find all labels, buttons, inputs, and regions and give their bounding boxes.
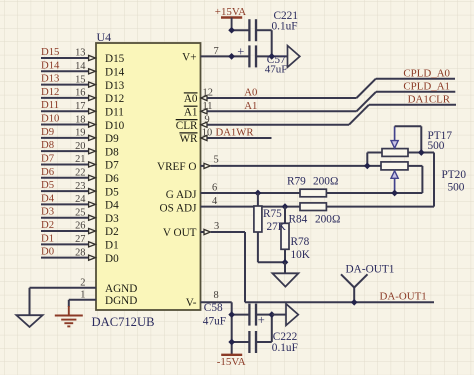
value label C58 47uF bbox=[203, 302, 226, 327]
net label D10 bbox=[41, 113, 59, 125]
svg-text:R84: R84 bbox=[289, 213, 308, 225]
svg-text:5: 5 bbox=[214, 155, 219, 166]
svg-text:16: 16 bbox=[75, 88, 85, 99]
value label DAC712UB bbox=[92, 315, 155, 329]
wire VREF O bbox=[211, 165, 381, 167]
svg-text:A0: A0 bbox=[184, 93, 198, 105]
node junction VREF branch bbox=[365, 153, 382, 169]
capacitor C58 plates bbox=[249, 304, 256, 326]
pin number 28 bbox=[75, 247, 85, 258]
pin number 16 bbox=[75, 88, 85, 99]
wire D3 bbox=[41, 217, 88, 219]
port label DA-OUT1 bbox=[346, 263, 395, 275]
pin name D11 bbox=[105, 106, 124, 118]
svg-text:D6: D6 bbox=[105, 173, 119, 185]
capacitor C57 plates bbox=[249, 45, 256, 67]
resistor R78 body bbox=[281, 207, 289, 263]
svg-text:23: 23 bbox=[75, 181, 85, 192]
value label C57 47uF bbox=[265, 54, 288, 76]
node junction V+ rail bottom bbox=[229, 54, 234, 59]
svg-text:D10: D10 bbox=[105, 120, 125, 132]
pin arrow D1 bbox=[89, 242, 96, 247]
pin name V+ bbox=[182, 52, 196, 64]
pin name D6 bbox=[105, 173, 119, 185]
wire V- pin 8 bbox=[201, 302, 232, 354]
node junction R78 top bbox=[282, 204, 287, 209]
PT17 wiper arrow bbox=[391, 126, 398, 148]
ground below R78 bbox=[272, 273, 298, 286]
pin arrow D12 bbox=[89, 95, 96, 100]
wire C57 right to arrow bbox=[257, 55, 288, 57]
svg-text:27: 27 bbox=[75, 234, 85, 245]
svg-text:14: 14 bbox=[75, 61, 86, 72]
net label D3 bbox=[41, 206, 54, 218]
pin number 1 bbox=[80, 290, 85, 301]
svg-text:D7: D7 bbox=[105, 160, 119, 172]
pin arrow V OUT bbox=[201, 229, 211, 234]
pin number 17 bbox=[75, 101, 85, 112]
svg-text:6: 6 bbox=[212, 183, 217, 194]
pin name D3 bbox=[105, 213, 119, 225]
svg-text:19: 19 bbox=[75, 128, 85, 139]
PT20 wiper arrow bbox=[391, 171, 398, 193]
svg-text:D12: D12 bbox=[105, 93, 124, 105]
pin name WR bbox=[179, 133, 198, 145]
svg-text:D4: D4 bbox=[105, 200, 119, 212]
svg-text:A0: A0 bbox=[244, 87, 257, 99]
pin name AGND bbox=[105, 283, 137, 295]
net label DA1WR bbox=[216, 127, 255, 139]
designator U4 bbox=[97, 30, 112, 44]
pin name DGND bbox=[105, 295, 137, 307]
svg-text:200Ω: 200Ω bbox=[315, 213, 340, 225]
svg-text:D1: D1 bbox=[41, 232, 54, 244]
pin arrow D11 bbox=[89, 109, 96, 114]
svg-text:D4: D4 bbox=[41, 192, 55, 204]
wire D11 bbox=[41, 110, 88, 112]
wire D15 bbox=[41, 57, 88, 59]
pin number 11 bbox=[203, 101, 213, 112]
svg-text:13: 13 bbox=[75, 48, 85, 59]
svg-text:17: 17 bbox=[75, 101, 85, 112]
potentiometer PT20 body bbox=[381, 162, 408, 170]
value label PT20 500 bbox=[442, 169, 467, 194]
svg-text:A1: A1 bbox=[184, 107, 198, 119]
svg-text:CLR: CLR bbox=[176, 120, 198, 132]
wire D13 bbox=[41, 84, 88, 86]
power +15VA bbox=[215, 6, 246, 30]
svg-text:D7: D7 bbox=[41, 152, 55, 164]
wire CLR bbox=[207, 124, 349, 126]
pin number 22 bbox=[75, 167, 85, 178]
pin name V OUT bbox=[163, 227, 197, 239]
pin arrow D5 bbox=[89, 189, 96, 194]
pin number 4 bbox=[212, 196, 218, 207]
net label A0 bbox=[244, 87, 257, 99]
value label R84 200ohm bbox=[289, 213, 341, 225]
svg-text:D0: D0 bbox=[41, 246, 54, 258]
svg-text:R78: R78 bbox=[291, 236, 310, 248]
svg-text:18: 18 bbox=[75, 114, 85, 125]
pin name D12 bbox=[105, 93, 124, 105]
ground AGND earth triangle bbox=[16, 315, 42, 327]
polarity plus C57 bbox=[237, 44, 244, 58]
svg-text:47uF: 47uF bbox=[265, 64, 288, 76]
svg-text:D13: D13 bbox=[41, 73, 59, 85]
pin arrow A0 bbox=[201, 95, 207, 100]
svg-text:DA1WR: DA1WR bbox=[216, 127, 255, 139]
svg-text:28: 28 bbox=[75, 247, 85, 258]
pin number 8 bbox=[214, 290, 219, 301]
svg-text:47uF: 47uF bbox=[203, 315, 226, 327]
pin number 10 bbox=[202, 128, 212, 139]
svg-text:D0: D0 bbox=[105, 253, 119, 265]
svg-text:C58: C58 bbox=[204, 302, 223, 314]
svg-text:D1: D1 bbox=[105, 240, 119, 252]
svg-text:0.1uF: 0.1uF bbox=[272, 342, 298, 354]
net label D14 bbox=[41, 59, 60, 71]
svg-text:+: + bbox=[258, 313, 265, 327]
svg-text:0.1uF: 0.1uF bbox=[272, 20, 298, 32]
svg-text:R75: R75 bbox=[263, 208, 282, 220]
wire V+ pin 7 bbox=[201, 55, 249, 57]
svg-text:DAC712UB: DAC712UB bbox=[92, 315, 155, 329]
svg-text:D12: D12 bbox=[41, 86, 59, 98]
pin number 6 bbox=[212, 183, 217, 194]
node junction C58 left bbox=[229, 312, 234, 317]
wire D8 bbox=[41, 150, 88, 152]
svg-text:25: 25 bbox=[75, 207, 85, 218]
value label R78 10K bbox=[291, 236, 311, 261]
svg-text:3: 3 bbox=[214, 221, 219, 232]
svg-text:10K: 10K bbox=[291, 249, 311, 261]
svg-text:WR: WR bbox=[179, 133, 198, 145]
net label D7 bbox=[41, 152, 55, 164]
wire D7 bbox=[41, 163, 88, 165]
wire D5 bbox=[41, 190, 88, 192]
ground DGND power ground bars bbox=[55, 316, 83, 327]
wire DGND pin 1 bbox=[69, 300, 96, 316]
net label D2 bbox=[41, 219, 54, 231]
wire CPLD_A1 diagonal bbox=[357, 92, 456, 112]
value label R79 200ohm bbox=[287, 175, 338, 187]
net label D4 bbox=[41, 192, 55, 204]
svg-text:DA1CLR: DA1CLR bbox=[408, 94, 451, 106]
svg-text:D9: D9 bbox=[105, 133, 119, 145]
polarity plus C58 bbox=[258, 313, 265, 327]
pin name D2 bbox=[105, 226, 119, 238]
value label C221 0.1uF bbox=[272, 10, 298, 32]
pin name D15 bbox=[105, 53, 125, 65]
svg-text:8: 8 bbox=[214, 290, 219, 301]
pin name V- bbox=[186, 297, 197, 309]
svg-text:DA-OUT1: DA-OUT1 bbox=[380, 290, 427, 302]
pin arrow VREF O bbox=[201, 163, 211, 168]
svg-text:D3: D3 bbox=[105, 213, 119, 225]
svg-text:PT20: PT20 bbox=[442, 169, 467, 181]
wire D0 bbox=[41, 257, 88, 259]
node junction C57 right bbox=[269, 54, 274, 59]
svg-text:22: 22 bbox=[75, 167, 85, 178]
svg-text:D5: D5 bbox=[41, 179, 54, 191]
node junction R75 R78 bottom bbox=[282, 260, 287, 274]
svg-text:AGND: AGND bbox=[105, 283, 137, 295]
svg-text:D11: D11 bbox=[105, 106, 124, 118]
capacitor C221 plates bbox=[249, 19, 256, 41]
net label D5 bbox=[41, 179, 54, 191]
pin arrow D6 bbox=[89, 175, 96, 180]
svg-text:500: 500 bbox=[448, 181, 465, 193]
pin name D10 bbox=[105, 120, 125, 132]
pin arrow D15 bbox=[89, 55, 96, 60]
svg-text:D13: D13 bbox=[105, 80, 125, 92]
svg-text:+: + bbox=[237, 44, 244, 58]
IC U4 DAC712UB chip body bbox=[96, 43, 201, 310]
svg-text:A1: A1 bbox=[244, 100, 257, 112]
pin number 2 bbox=[80, 278, 85, 289]
wire C222 row bbox=[232, 315, 272, 342]
wire D10 bbox=[41, 124, 88, 126]
pin number 7 bbox=[214, 46, 219, 57]
wire D1 bbox=[41, 243, 88, 245]
svg-text:D11: D11 bbox=[41, 99, 59, 111]
pin arrow D8 bbox=[89, 149, 96, 154]
pin arrow D7 bbox=[89, 162, 96, 167]
pin arrow D14 bbox=[89, 69, 96, 74]
pin number 9 bbox=[205, 114, 210, 125]
wire D14 bbox=[41, 70, 88, 72]
svg-text:D9: D9 bbox=[41, 126, 54, 138]
wire V OUT to DA-OUT1 bbox=[211, 232, 434, 302]
wire CPLD_A0 diagonal bbox=[357, 79, 456, 98]
net label D12 bbox=[41, 86, 59, 98]
svg-text:D6: D6 bbox=[41, 166, 55, 178]
pin arrow WR bbox=[201, 135, 207, 140]
net label D9 bbox=[41, 126, 54, 138]
wire A0 bbox=[207, 97, 356, 99]
pin arrow D9 bbox=[89, 135, 96, 140]
wire D6 bbox=[41, 177, 88, 179]
net label A1 bbox=[244, 100, 257, 112]
svg-text:26: 26 bbox=[75, 221, 85, 232]
svg-text:VREF O: VREF O bbox=[157, 161, 196, 173]
wire PT17 wiper loop bbox=[395, 126, 424, 155]
power -15VA bbox=[217, 355, 246, 368]
pin number 23 bbox=[75, 181, 85, 192]
pin name VREF O bbox=[157, 161, 196, 173]
node junction C222 left bbox=[229, 339, 234, 344]
pin arrow D3 bbox=[89, 215, 96, 220]
svg-text:2: 2 bbox=[80, 278, 85, 289]
svg-text:V OUT: V OUT bbox=[163, 227, 197, 239]
svg-text:D15: D15 bbox=[105, 53, 125, 65]
svg-text:DA-OUT1: DA-OUT1 bbox=[346, 263, 395, 275]
svg-text:D8: D8 bbox=[41, 139, 54, 151]
svg-text:D2: D2 bbox=[105, 226, 119, 238]
pin name D9 bbox=[105, 133, 119, 145]
svg-text:D5: D5 bbox=[105, 186, 119, 198]
svg-text:D8: D8 bbox=[105, 146, 119, 158]
pin number 24 bbox=[75, 194, 86, 205]
net label D13 bbox=[41, 73, 59, 85]
wire C221 row bbox=[232, 30, 272, 56]
svg-text:D15: D15 bbox=[41, 46, 59, 58]
pin arrow D13 bbox=[89, 82, 96, 87]
svg-text:15: 15 bbox=[75, 74, 85, 85]
svg-text:U4: U4 bbox=[97, 30, 112, 44]
pin number 14 bbox=[75, 61, 86, 72]
pin arrow D0 bbox=[89, 255, 96, 260]
pin name OS ADJ bbox=[160, 203, 198, 215]
pin name D5 bbox=[105, 186, 119, 198]
pin name D13 bbox=[105, 80, 125, 92]
value label PT17 500 bbox=[428, 130, 453, 152]
pin number 27 bbox=[75, 234, 85, 245]
pin arrow D2 bbox=[89, 228, 96, 233]
pin name D0 bbox=[105, 253, 119, 265]
resistor R84 body bbox=[300, 203, 326, 211]
svg-text:DGND: DGND bbox=[105, 295, 137, 307]
pin number 25 bbox=[75, 207, 85, 218]
pin name D7 bbox=[105, 160, 119, 172]
pin number 12 bbox=[203, 88, 213, 99]
pin name D8 bbox=[105, 146, 119, 158]
net label CPLD_A1 bbox=[403, 81, 450, 93]
wire C58 right to arrow bbox=[272, 314, 286, 316]
svg-text:D2: D2 bbox=[41, 219, 54, 231]
wire PT17 right bbox=[408, 152, 434, 154]
no-erc arrow marker top bbox=[288, 46, 300, 68]
net label D8 bbox=[41, 139, 54, 151]
svg-text:OS ADJ: OS ADJ bbox=[160, 203, 198, 215]
pin number 26 bbox=[75, 221, 85, 232]
svg-text:500: 500 bbox=[428, 140, 445, 152]
net label D1 bbox=[41, 232, 54, 244]
no-erc arrow marker bottom bbox=[286, 304, 298, 326]
pin name D14 bbox=[105, 67, 125, 79]
value label C222 0.1uF bbox=[272, 331, 298, 354]
wire DA1CLR diagonal bbox=[349, 105, 456, 125]
pin number 15 bbox=[75, 74, 85, 85]
wire G ADJ bbox=[201, 166, 423, 193]
svg-text:21: 21 bbox=[75, 154, 85, 165]
node DA-OUT1 antenna port bbox=[341, 274, 368, 305]
pin number 21 bbox=[75, 154, 85, 165]
net label D6 bbox=[41, 166, 55, 178]
svg-text:4: 4 bbox=[212, 196, 218, 207]
svg-text:CPLD_A1: CPLD_A1 bbox=[403, 81, 450, 93]
net label D0 bbox=[41, 246, 54, 258]
pin arrow CLR bbox=[201, 122, 207, 127]
svg-text:V+: V+ bbox=[182, 52, 196, 64]
pin name D4 bbox=[105, 200, 119, 212]
pin name G ADJ bbox=[166, 189, 197, 201]
pin number 19 bbox=[75, 128, 85, 139]
wire D2 bbox=[41, 230, 88, 232]
wire OS ADJ bbox=[201, 153, 435, 207]
svg-text:D10: D10 bbox=[41, 113, 59, 125]
pin arrow A1 bbox=[201, 109, 207, 114]
wire AGND pin 2 bbox=[30, 288, 97, 315]
svg-text:-15VA: -15VA bbox=[217, 356, 246, 368]
svg-text:G ADJ: G ADJ bbox=[166, 189, 197, 201]
svg-text:20: 20 bbox=[75, 141, 85, 152]
pin name A0 bbox=[184, 93, 198, 105]
net label DA1CLR bbox=[408, 94, 451, 106]
pin arrow D4 bbox=[89, 202, 96, 207]
net label D15 bbox=[41, 46, 59, 58]
pin arrow D10 bbox=[89, 122, 96, 127]
resistor R75 body bbox=[254, 193, 285, 262]
node junction C58 right bbox=[269, 312, 274, 317]
wire PT20 right bbox=[408, 165, 422, 167]
capacitor C222 plates bbox=[249, 331, 256, 353]
pin number 13 bbox=[75, 48, 85, 59]
pin name D1 bbox=[105, 240, 119, 252]
resistor R79 body bbox=[300, 189, 326, 197]
net label DA-OUT1 bbox=[380, 290, 427, 302]
wire C58 row bbox=[232, 314, 272, 316]
pin number 3 bbox=[214, 221, 219, 232]
net label D11 bbox=[41, 99, 59, 111]
svg-text:1: 1 bbox=[80, 290, 85, 301]
wire D12 bbox=[41, 97, 88, 99]
wire WR bbox=[207, 137, 271, 139]
svg-text:CPLD_A0: CPLD_A0 bbox=[403, 67, 450, 79]
potentiometer PT17 body bbox=[382, 149, 408, 157]
value label R75 27K bbox=[263, 208, 287, 233]
svg-text:V-: V- bbox=[186, 297, 197, 309]
pin number 18 bbox=[75, 114, 85, 125]
wire D4 bbox=[41, 203, 88, 205]
svg-text:27K: 27K bbox=[267, 221, 287, 233]
pin number 20 bbox=[75, 141, 85, 152]
wire A1 bbox=[207, 110, 356, 112]
svg-text:24: 24 bbox=[75, 194, 86, 205]
svg-text:+15VA: +15VA bbox=[215, 6, 246, 18]
pin name A1 bbox=[184, 106, 198, 118]
node junction V+ rail top bbox=[229, 28, 234, 33]
wire D9 bbox=[41, 137, 88, 139]
svg-text:D3: D3 bbox=[41, 206, 54, 218]
svg-text:200Ω: 200Ω bbox=[313, 175, 338, 187]
node junction R75 top bbox=[255, 190, 260, 195]
svg-text:D14: D14 bbox=[105, 67, 125, 79]
svg-text:D14: D14 bbox=[41, 59, 60, 71]
svg-text:R79: R79 bbox=[287, 175, 306, 187]
node junction PT20 wiper bbox=[392, 190, 397, 195]
pin name CLR bbox=[176, 120, 198, 132]
net label CPLD_A0 bbox=[403, 67, 450, 79]
pin number 5 bbox=[214, 155, 219, 166]
